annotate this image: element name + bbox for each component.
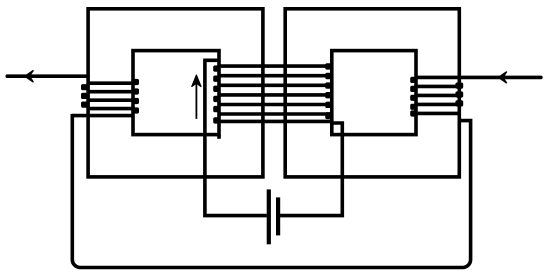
outer bottom loop wire [72, 114, 470, 268]
battery long plate [267, 189, 271, 244]
center winding line 7 [219, 120, 332, 124]
left arrowhead [25, 71, 33, 82]
left coil exit wire [72, 114, 133, 118]
center winding line 5 [219, 103, 332, 107]
right box winding tail to battery [276, 123, 342, 216]
battery short plate [276, 197, 280, 235]
right coil box-edge bumps [410, 77, 416, 83]
center winding line 6 [219, 112, 332, 116]
right box (transformer core) [332, 51, 416, 135]
center winding line 3 [219, 84, 332, 88]
right coil winding line 4 [416, 103, 459, 107]
right coil winding line 1 / right arrow lead [416, 76, 541, 80]
center winding bumps on left box edge [213, 65, 219, 71]
left coil rail bumps [81, 84, 89, 90]
left coil winding line 3 [88, 98, 133, 102]
center winding bumps on right box edge [325, 63, 331, 69]
flux arrowhead [192, 75, 201, 86]
right coil rail bumps (straddle) [455, 83, 463, 89]
left box (transformer core) [133, 51, 219, 135]
left coil winding line 2 [88, 90, 133, 94]
center winding line 4 [219, 93, 332, 97]
right arrowhead [499, 72, 507, 83]
left box winding tail to battery [205, 60, 267, 215]
left coil winding line 4 [88, 107, 133, 111]
right outer rectangle (core loop) [285, 9, 459, 177]
right coil winding line 3 [416, 94, 459, 98]
wire left arrow lead [7, 74, 88, 78]
right coil winding line 5 [416, 112, 459, 116]
center winding line 1 [219, 64, 332, 68]
left coil winding line 1 [88, 81, 133, 85]
center winding line 2 [219, 74, 332, 78]
left box corner stub [217, 135, 221, 139]
flux arrow shaft in left box [195, 84, 197, 119]
right coil winding line 2 [416, 85, 459, 89]
left outer rectangle (core loop) [88, 9, 263, 177]
left coil box-edge bumps [133, 79, 139, 85]
